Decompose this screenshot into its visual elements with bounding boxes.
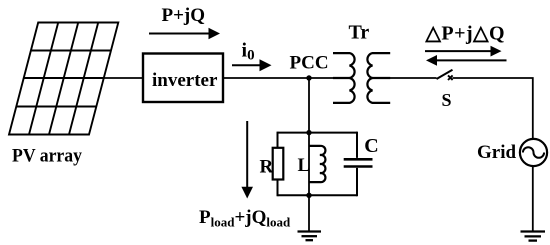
- wire: PV array to inverter: [100, 77, 143, 79]
- resistor R branch wires: [277, 132, 279, 197]
- wire: grid source to ground: [532, 166, 534, 232]
- resistor R body: [273, 148, 284, 180]
- svg-text:Tr: Tr: [349, 22, 370, 44]
- inductor L coil: [309, 146, 325, 182]
- svg-text:C: C: [364, 135, 378, 157]
- junction dot top rail: [306, 130, 311, 135]
- svg-text:PCC: PCC: [290, 53, 329, 74]
- ground (grid side): [521, 232, 546, 241]
- arrow P+jQ flow: [149, 28, 220, 39]
- node PCC junction dot: [306, 75, 311, 80]
- AC source sine wave: [523, 147, 544, 158]
- arrow power export (right): [425, 46, 502, 57]
- load top rail wire: [278, 132, 358, 134]
- transformer Tr secondary winding: [367, 53, 390, 103]
- wire: PCC down through load rails to ground: [308, 78, 310, 231]
- wire: inverter to PCC to transformer: [223, 77, 348, 79]
- svg-text:△P+j△Q: △P+j△Q: [425, 23, 506, 45]
- capacitor C plates: [344, 159, 373, 166]
- svg-text:P+jQ: P+jQ: [162, 5, 206, 26]
- arrow i0: [232, 59, 272, 71]
- wire: transformer to switch: [388, 77, 437, 79]
- wire: switch to grid corner and down: [453, 78, 533, 139]
- switch S contact x-mark: [448, 75, 453, 80]
- PV array panel: [9, 23, 118, 135]
- junction dot bottom rail: [306, 193, 311, 198]
- svg-text:L: L: [298, 155, 311, 176]
- svg-text:inverter: inverter: [152, 70, 218, 91]
- arrow load power flow (down): [241, 121, 253, 199]
- svg-text:S: S: [442, 90, 452, 110]
- AC source Grid circle: [520, 139, 547, 166]
- capacitor C branch wires: [356, 132, 358, 197]
- svg-text:Grid: Grid: [477, 142, 516, 163]
- inverter U1: [143, 54, 223, 103]
- arrow power import (left): [426, 55, 507, 66]
- svg-text:PV array: PV array: [12, 146, 82, 167]
- svg-text:R: R: [260, 156, 274, 177]
- switch S blade: [437, 70, 453, 79]
- transformer Tr primary winding: [333, 53, 355, 103]
- ground (load side): [298, 232, 322, 241]
- load bottom rail wire: [278, 194, 358, 196]
